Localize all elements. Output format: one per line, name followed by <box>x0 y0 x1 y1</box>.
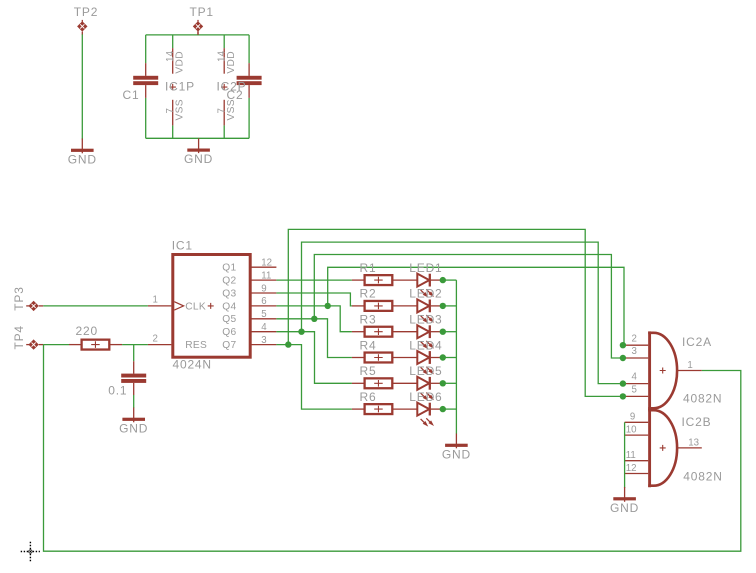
wire R1 to LED1 <box>392 279 417 281</box>
node junction LED3 cathode <box>440 329 446 335</box>
wire Q6 branch up to IC2A pin 4 <box>302 242 623 384</box>
symbol origin cross of IC2A <box>660 368 666 374</box>
svg-text:IC1P: IC1P <box>165 79 195 93</box>
svg-text:9: 9 <box>261 283 266 294</box>
svg-text:LED2: LED2 <box>409 287 442 301</box>
wire C2 to bottom rail <box>248 98 250 138</box>
svg-text:0.1: 0.1 <box>108 383 127 397</box>
wire VSS rail bottom <box>146 137 249 139</box>
capacitor C3 0.1 <box>121 361 146 395</box>
wire Q6 to R5 <box>276 332 352 384</box>
op-amp IC2B gate body <box>648 409 677 487</box>
test point TP4 <box>26 339 43 349</box>
LED LED1 <box>417 274 434 298</box>
pin Q1 (12) of IC1 <box>222 258 276 274</box>
wire Q3 to R2 <box>276 293 352 306</box>
svg-text:C1: C1 <box>123 88 140 102</box>
resistor R6 lead left <box>352 408 365 410</box>
ground under power rail <box>184 138 213 166</box>
wire IC1P VSS column <box>172 125 174 138</box>
svg-text:1: 1 <box>687 360 692 371</box>
svg-text:13: 13 <box>688 437 699 448</box>
wire R6 to LED6 <box>392 408 417 410</box>
wire Q7 to R6 <box>276 345 352 410</box>
op-amp IC2A gate body <box>648 331 677 409</box>
wire Q2 to R1 <box>276 279 352 281</box>
resistor R2 <box>365 301 393 311</box>
resistor R2 lead left <box>352 305 365 307</box>
wire TP1 lead <box>197 31 199 35</box>
wire R3 to LED3 <box>392 331 417 333</box>
node junction IC2A pin 4 <box>620 380 626 386</box>
pin Q7 (3) of IC1 <box>222 335 276 351</box>
svg-text:11: 11 <box>626 450 636 461</box>
svg-text:5: 5 <box>261 309 266 320</box>
svg-text:IC1: IC1 <box>172 239 193 253</box>
svg-text:R4: R4 <box>360 338 377 352</box>
resistor R7 220 lead left <box>69 344 82 346</box>
svg-text:LED5: LED5 <box>409 364 442 378</box>
svg-text:R2: R2 <box>360 287 377 301</box>
svg-text:GND: GND <box>442 447 471 461</box>
pin RES (2) of IC1 <box>148 333 207 351</box>
pin Q6 (4) of IC1 <box>222 322 276 338</box>
wire LED4 to cathode bus <box>443 357 457 359</box>
symbol origin cross of IC1 <box>208 303 214 309</box>
pin CLK (1) of IC1 <box>148 295 206 313</box>
svg-text:TP4: TP4 <box>12 325 26 349</box>
pin 13 output of IC2B <box>677 437 702 448</box>
wire right edge to C2 <box>248 35 250 63</box>
wire LED3 to cathode bus <box>443 331 457 333</box>
capacitor C2 <box>237 63 262 98</box>
svg-text:VDD: VDD <box>175 51 186 74</box>
pin 9 of IC2B <box>625 412 649 423</box>
wire TP4 to R7 <box>43 344 69 346</box>
resistor R5 <box>365 378 393 388</box>
svg-text:CLK: CLK <box>185 302 206 313</box>
wire Q7 branch up to IC2A pin 5 <box>288 229 623 396</box>
svg-text:4: 4 <box>261 322 267 333</box>
svg-text:5: 5 <box>632 385 637 396</box>
svg-text:LED1: LED1 <box>409 261 442 275</box>
svg-text:Q2: Q2 <box>222 276 236 287</box>
resistor R4 lead left <box>352 357 365 359</box>
resistor R1 <box>365 275 393 285</box>
resistor R1 lead left <box>352 279 365 281</box>
node junction LED5 cathode <box>440 380 446 386</box>
svg-text:LED3: LED3 <box>409 313 442 327</box>
symbol origin cross of IC2B <box>660 445 666 451</box>
pin 10 of IC2B <box>625 425 649 436</box>
wire C1 to bottom rail <box>145 98 147 138</box>
LED6 cathode lead <box>431 408 443 410</box>
node junction LED4 cathode <box>440 354 446 360</box>
wire LED1 to cathode bus <box>443 279 457 281</box>
wire 220 to RES pin <box>122 344 148 346</box>
svg-text:IC2B: IC2B <box>682 415 712 429</box>
wire Q4 to R3 <box>276 306 352 332</box>
svg-text:RES: RES <box>185 340 207 351</box>
svg-text:R6: R6 <box>360 390 377 404</box>
wire branch to C3 <box>133 345 135 362</box>
svg-text:GND: GND <box>119 421 148 435</box>
node junction LED1 cathode <box>440 277 446 283</box>
svg-text:VSS: VSS <box>226 99 237 120</box>
svg-text:TP2: TP2 <box>74 5 98 19</box>
LED LED4 <box>417 351 434 375</box>
LED4 cathode lead <box>431 357 443 359</box>
LED3 cathode lead <box>431 331 443 333</box>
svg-text:GND: GND <box>68 152 97 166</box>
wire VDD rail top <box>146 34 249 36</box>
test point TP3 <box>26 301 43 311</box>
resistor R7 220 <box>82 340 110 350</box>
LED1 cathode lead <box>431 279 443 281</box>
power symbol IC2P VSS pin 7 <box>217 99 237 125</box>
svg-text:12: 12 <box>626 463 637 474</box>
pin 2 of IC2A <box>623 333 648 345</box>
pin Q5 (5) of IC1 <box>222 309 276 325</box>
IC IC1 4024N body <box>173 255 250 358</box>
wire TP2 to GND <box>81 34 83 139</box>
svg-text:Q5: Q5 <box>222 314 236 325</box>
LED LED2 <box>417 299 434 323</box>
pin Q2 (11) of IC1 <box>222 270 276 286</box>
ground under TP2 <box>68 139 97 167</box>
svg-text:4082N: 4082N <box>683 469 722 483</box>
svg-text:TP3: TP3 <box>12 286 26 310</box>
node junction IC2A pin 3 <box>620 355 626 361</box>
power symbol IC2P origin <box>221 84 227 90</box>
svg-text:LED4: LED4 <box>409 338 442 352</box>
svg-text:2: 2 <box>632 333 637 344</box>
capacitor C1 <box>133 63 158 98</box>
op-amp IC1P VDD pin 14 <box>165 48 185 74</box>
LED LED6 <box>417 403 434 427</box>
LED LED3 <box>417 325 434 349</box>
node junction LED2 cathode <box>440 303 446 309</box>
svg-text:12: 12 <box>261 258 272 269</box>
svg-text:VDD: VDD <box>226 51 237 74</box>
svg-text:TP1: TP1 <box>190 5 214 19</box>
ground under IC2B <box>610 487 639 515</box>
svg-text:6: 6 <box>261 296 266 307</box>
pin 11 of IC2B <box>625 450 649 461</box>
wire Q5 to R4 <box>276 319 352 358</box>
svg-text:10: 10 <box>626 425 637 436</box>
power symbol IC2P VDD pin 14 <box>217 48 237 74</box>
svg-text:IC2P: IC2P <box>217 79 247 93</box>
node junction Q4 <box>325 303 331 309</box>
node junction Q6 <box>298 329 304 335</box>
svg-text:3: 3 <box>632 346 637 357</box>
wire R2 to LED2 <box>392 305 417 307</box>
wire IC2P VSS column <box>223 125 225 138</box>
svg-text:R3: R3 <box>360 313 377 327</box>
pin 5 of IC2A <box>623 385 648 397</box>
ground under C3 <box>119 408 148 436</box>
resistor R7 220 lead right <box>109 344 122 346</box>
node junction Q5 <box>311 316 317 322</box>
svg-text:1: 1 <box>153 295 158 306</box>
svg-text:9: 9 <box>630 412 635 423</box>
wire R4 to LED4 <box>392 357 417 359</box>
wire TP3 to CLK <box>43 305 148 307</box>
wire LED6 to cathode bus <box>443 408 457 410</box>
ground under LED bus <box>442 434 471 462</box>
LED5 cathode lead <box>431 382 443 384</box>
resistor R6 <box>365 404 393 414</box>
pin 1 output of IC2A <box>677 360 702 371</box>
node junction LED6 cathode <box>440 406 446 412</box>
wire Q4 branch up to IC2A pin 2 <box>328 267 624 345</box>
svg-text:IC2A: IC2A <box>682 335 712 349</box>
svg-text:LED6: LED6 <box>409 390 442 404</box>
wire left edge to C1 <box>145 35 147 63</box>
LED LED5 <box>417 377 434 401</box>
pin Q3 (9) of IC1 <box>222 283 276 299</box>
svg-text:Q3: Q3 <box>222 288 236 299</box>
wire IC2P VDD column <box>223 35 225 48</box>
node junction Q7 <box>285 341 291 347</box>
pin 4 of IC2A <box>623 372 648 384</box>
resistor R3 <box>365 327 393 337</box>
svg-text:GND: GND <box>184 152 213 166</box>
wire LED5 to cathode bus <box>443 382 457 384</box>
node junction IC2A pin 5 <box>620 393 626 399</box>
wire R5 to LED5 <box>392 382 417 384</box>
svg-text:4024N: 4024N <box>173 358 212 372</box>
op-amp IC1P VSS pin 7 <box>165 99 185 125</box>
wire LED2 to cathode bus <box>443 305 457 307</box>
LED2 cathode lead <box>431 305 443 307</box>
svg-text:2: 2 <box>153 333 158 344</box>
pin 3 of IC2A <box>623 346 648 358</box>
svg-text:Q7: Q7 <box>222 340 236 351</box>
svg-text:220: 220 <box>76 324 98 338</box>
sheet origin crosshair <box>21 542 40 561</box>
pin Q4 (6) of IC1 <box>222 296 276 312</box>
svg-text:4: 4 <box>632 372 638 383</box>
wire LED cathode bus <box>455 280 457 434</box>
svg-text:R1: R1 <box>360 261 377 275</box>
svg-text:Q6: Q6 <box>222 327 236 338</box>
svg-text:11: 11 <box>261 270 271 281</box>
svg-text:VSS: VSS <box>175 99 186 120</box>
svg-text:3: 3 <box>261 335 266 346</box>
svg-text:GND: GND <box>610 501 639 515</box>
wire C3 to GND <box>133 395 135 408</box>
svg-text:Q4: Q4 <box>222 301 236 312</box>
power symbol IC1P origin <box>170 84 176 90</box>
node junction IC2A pin 2 <box>620 342 626 348</box>
svg-text:R5: R5 <box>360 364 377 378</box>
wire IC2A output feedback to TP4/RES <box>44 345 741 552</box>
resistor R5 lead left <box>352 382 365 384</box>
test point TP2 <box>77 20 87 35</box>
resistor R4 <box>365 353 393 363</box>
wire IC2B unused inputs tie <box>624 422 626 488</box>
test point TP1 <box>193 20 203 35</box>
svg-text:4082N: 4082N <box>683 392 722 406</box>
wire IC1P VDD column <box>172 35 174 48</box>
pin 12 of IC2B <box>625 463 649 474</box>
wire Q5 branch up to IC2A pin 3 <box>314 255 623 359</box>
svg-text:Q1: Q1 <box>222 263 236 274</box>
resistor R3 lead left <box>352 331 365 333</box>
